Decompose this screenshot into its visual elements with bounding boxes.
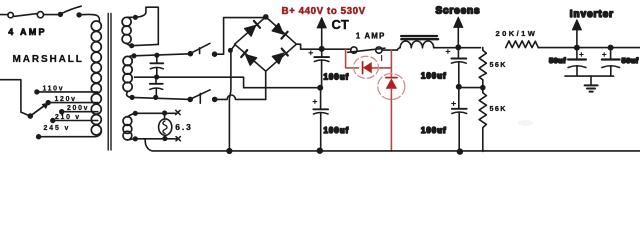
- transformer T1 primary winding: [91, 21, 101, 135]
- svg-text:100uf: 100uf: [324, 126, 350, 135]
- node on left vertex drop: [229, 49, 232, 52]
- transformer secondary winding 2 HT: [123, 56, 132, 97]
- node rail C6: [458, 149, 463, 154]
- node heater top: [134, 112, 138, 116]
- svg-text:20K/1W: 20K/1W: [496, 29, 538, 38]
- diode D1 bridge top-left: [245, 21, 260, 36]
- node inverter right cap: [608, 45, 612, 49]
- capacitor C1: [150, 55, 163, 77]
- node lamp top: [163, 111, 167, 115]
- wire HT top to standby switch: [130, 54, 190, 56]
- tap 200v: [60, 105, 98, 113]
- resistor R3 20K/1W: [496, 29, 539, 48]
- svg-text:50uf: 50uf: [549, 56, 566, 65]
- wire bridge bottom vertex down: [265, 71, 267, 99]
- wire HT bottom to standby switch: [132, 97, 190, 99]
- tap 120v: [46, 96, 98, 105]
- node cap C2 bottom: [154, 96, 158, 100]
- tap 210v: [51, 114, 98, 122]
- tap 245v: [37, 125, 102, 139]
- connection X heater top: [176, 110, 180, 114]
- connection X heater bottom: [176, 137, 180, 141]
- pilot lamp: [159, 113, 172, 139]
- red safety diode D6 to ground: [378, 50, 405, 151]
- choke L1: [397, 36, 438, 50]
- capacitor C4 100uf lower left stack: [313, 88, 349, 151]
- wire bridge left vertex down to bottom rail: [229, 45, 235, 150]
- wire inverter rail: [538, 47, 640, 49]
- svg-text:Inverter: Inverter: [570, 9, 614, 20]
- node winding2 top: [132, 54, 136, 58]
- capacitor C5 100uf upper right stack: [421, 47, 466, 86]
- red protection diode D5 across fuse: [346, 50, 392, 79]
- wire winding1 bottom to corner: [132, 44, 159, 45]
- wire heater bottom: [135, 138, 176, 140]
- node cap C1 bottom: [155, 75, 159, 79]
- wire C5 node to 56K junction: [459, 87, 483, 89]
- svg-text:Screens: Screens: [436, 6, 481, 17]
- wire bottom rail: [145, 140, 640, 151]
- switch S1 blade: [62, 6, 81, 13]
- svg-text:120v: 120v: [55, 96, 77, 103]
- voltage selector mains wire: [0, 80, 29, 116]
- svg-text:6.3: 6.3: [175, 122, 193, 132]
- node lamp bottom: [163, 137, 167, 141]
- wire heater top: [135, 112, 176, 114]
- wire fuse F2 to choke: [382, 49, 397, 51]
- node rail C4: [317, 148, 322, 153]
- svg-text:CT: CT: [332, 17, 349, 32]
- svg-text:56K: 56K: [490, 104, 507, 113]
- diode D2 bridge top-right: [272, 24, 287, 39]
- node cap C1 top: [155, 53, 159, 57]
- svg-text:MARSHALL: MARSHALL: [13, 54, 84, 65]
- capacitor C2: [150, 77, 163, 97]
- node winding1 top: [134, 15, 138, 19]
- wire bridge output B+: [296, 44, 351, 49]
- diode D3 bridge bottom-left: [241, 50, 256, 65]
- node B+ filter: [320, 47, 324, 51]
- switch S2b standby lower: [188, 90, 217, 103]
- node rail left-vertex drop: [227, 149, 232, 154]
- node switch S1 pivot: [59, 13, 63, 17]
- wire switch to transformer primary: [81, 14, 100, 21]
- resistor R2 56K: [479, 88, 507, 152]
- fuse F2 1 AMP: [348, 32, 386, 54]
- bridge rectifier diamond: [235, 17, 297, 71]
- node winding2 bottom: [130, 96, 134, 100]
- ground symbol: [585, 76, 598, 92]
- scan tick: [381, 56, 383, 61]
- transformer secondary winding 3 heater: [123, 113, 135, 140]
- svg-text:1 AMP: 1 AMP: [356, 32, 386, 41]
- wire fuse to switch: [44, 14, 59, 16]
- B+ arrow: [321, 28, 323, 49]
- node heater bottom: [134, 137, 138, 141]
- node screens: [456, 45, 460, 49]
- fuse F1 4 AMP: [8, 12, 47, 37]
- capacitor C8 50uf: [602, 48, 639, 76]
- node selector pivot: [28, 114, 32, 118]
- capacitor C6 100uf lower right stack: [421, 87, 467, 152]
- svg-text:100uf: 100uf: [324, 73, 350, 82]
- inverter arrow: [576, 30, 578, 48]
- node inverter left cap: [575, 45, 579, 49]
- wire winding1 over-route: [127, 7, 159, 44]
- svg-text:100uf: 100uf: [421, 126, 447, 135]
- svg-text:B+ 440V to 530V: B+ 440V to 530V: [282, 6, 366, 17]
- transformer core: [107, 14, 109, 151]
- svg-text:110v: 110v: [43, 85, 65, 92]
- wire ground bus: [565, 75, 614, 77]
- svg-text:100uf: 100uf: [421, 72, 447, 81]
- wire S2a to bridge top: [217, 18, 264, 55]
- node between C5 C6: [457, 85, 461, 89]
- capacitor C3 100uf upper left stack: [309, 49, 349, 88]
- scan smudge: [518, 120, 533, 126]
- wire choke to screens node: [434, 47, 481, 49]
- svg-text:210 v: 210 v: [55, 114, 81, 121]
- wire mains live entry: [0, 14, 8, 16]
- diode D4 bridge bottom-right: [272, 49, 287, 64]
- node between 56K resistors: [481, 86, 485, 90]
- svg-text:4 AMP: 4 AMP: [8, 27, 47, 37]
- wire S2b to bridge bottom with hop: [217, 95, 266, 99]
- svg-text:245 v: 245 v: [44, 125, 71, 132]
- svg-text:56K: 56K: [490, 60, 507, 69]
- transformer secondary winding 1: [122, 17, 132, 45]
- screens arrow: [457, 27, 459, 47]
- switch S2a standby upper: [188, 43, 216, 56]
- node bridge top vertex: [264, 15, 268, 19]
- capacitor C7 50uf: [549, 48, 586, 76]
- svg-text:50uf: 50uf: [622, 56, 639, 65]
- wire HT centre tap: [135, 77, 320, 88]
- svg-text:200v: 200v: [67, 105, 89, 112]
- node winding1 bottom: [130, 44, 134, 48]
- node switch S1 contact: [77, 13, 81, 17]
- tap 110v: [35, 85, 98, 93]
- resistor R1 56K: [479, 47, 507, 87]
- selector arrow blade: [30, 105, 45, 116]
- node between C3 C4: [318, 86, 322, 90]
